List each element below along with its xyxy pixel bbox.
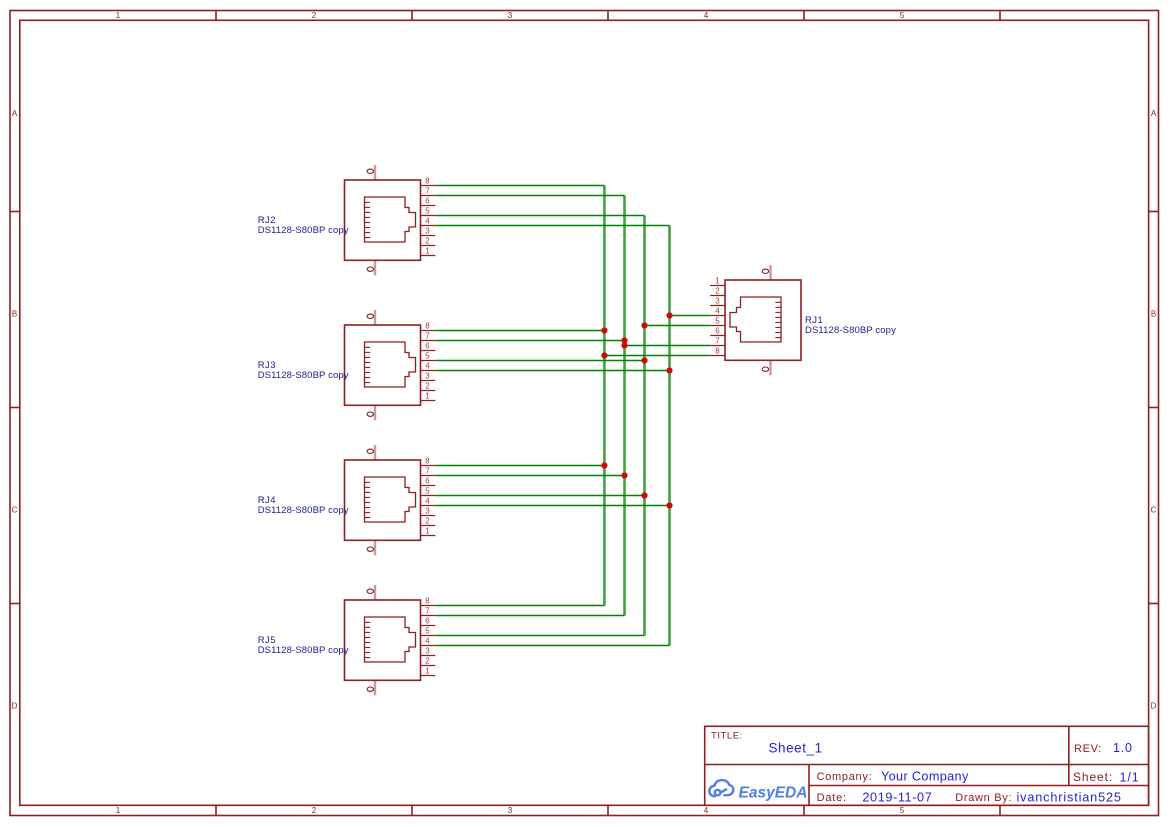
svg-text:8: 8 [425,457,430,466]
svg-text:2: 2 [425,382,430,391]
svg-text:REV:: REV: [1074,743,1102,755]
svg-text:ivanchristian525: ivanchristian525 [1017,791,1122,805]
svg-text:EasyEDA: EasyEDA [739,785,808,802]
svg-text:1: 1 [425,527,430,536]
svg-text:4: 4 [715,307,720,316]
svg-text:C: C [1151,506,1157,515]
svg-text:3: 3 [425,227,430,236]
svg-text:7: 7 [425,332,430,341]
svg-text:A: A [12,109,18,118]
svg-text:7: 7 [425,467,430,476]
svg-text:8: 8 [425,597,430,606]
svg-text:4: 4 [425,497,430,506]
svg-text:1.0: 1.0 [1113,741,1133,755]
svg-text:5: 5 [425,352,430,361]
svg-text:1: 1 [425,667,430,676]
svg-text:B: B [1151,310,1156,319]
svg-text:7: 7 [715,337,720,346]
svg-text:5: 5 [900,806,905,815]
svg-text:C: C [12,506,18,515]
svg-text:1: 1 [425,392,430,401]
svg-text:4: 4 [704,806,709,815]
svg-text:4: 4 [425,637,430,646]
svg-text:Sheet:: Sheet: [1073,770,1113,784]
svg-text:Company:: Company: [817,771,873,783]
svg-text:Sheet_1: Sheet_1 [769,741,823,756]
svg-text:2019-11-07: 2019-11-07 [862,791,932,805]
svg-text:3: 3 [715,297,720,306]
svg-text:2: 2 [425,237,430,246]
svg-text:2: 2 [312,11,317,20]
svg-text:DS1128-S80BP copy: DS1128-S80BP copy [258,225,349,236]
svg-text:DS1128-S80BP copy: DS1128-S80BP copy [258,505,349,516]
svg-text:6: 6 [425,477,430,486]
svg-text:DS1128-S80BP copy: DS1128-S80BP copy [805,325,896,336]
svg-text:8: 8 [425,177,430,186]
svg-text:2: 2 [715,287,720,296]
svg-text:5: 5 [425,207,430,216]
svg-text:4: 4 [704,11,709,20]
svg-text:Date:: Date: [817,792,847,804]
svg-text:7: 7 [425,187,430,196]
svg-text:6: 6 [425,342,430,351]
svg-text:7: 7 [425,607,430,616]
svg-text:3: 3 [425,372,430,381]
svg-text:3: 3 [425,507,430,516]
svg-text:2: 2 [425,517,430,526]
svg-text:DS1128-S80BP copy: DS1128-S80BP copy [258,645,349,656]
svg-text:1/1: 1/1 [1120,771,1140,785]
svg-text:6: 6 [425,197,430,206]
svg-text:1: 1 [715,277,720,286]
svg-text:4: 4 [425,217,430,226]
svg-text:8: 8 [425,322,430,331]
svg-text:5: 5 [900,11,905,20]
svg-text:1: 1 [116,806,121,815]
svg-text:2: 2 [312,806,317,815]
svg-text:3: 3 [508,806,513,815]
svg-text:6: 6 [425,617,430,626]
svg-text:B: B [12,310,17,319]
svg-text:2: 2 [425,657,430,666]
svg-text:Your Company: Your Company [881,770,969,784]
svg-text:1: 1 [425,247,430,256]
svg-text:3: 3 [508,11,513,20]
svg-text:5: 5 [425,487,430,496]
svg-text:D: D [1151,702,1157,711]
svg-text:D: D [12,702,18,711]
svg-text:TITLE:: TITLE: [711,731,743,742]
svg-text:5: 5 [715,317,720,326]
svg-text:3: 3 [425,647,430,656]
svg-text:6: 6 [715,327,720,336]
svg-text:A: A [1151,109,1157,118]
svg-text:Drawn By:: Drawn By: [955,792,1012,804]
svg-text:DS1128-S80BP copy: DS1128-S80BP copy [258,370,349,381]
svg-text:8: 8 [715,347,720,356]
svg-text:4: 4 [425,362,430,371]
svg-text:1: 1 [116,11,121,20]
svg-text:5: 5 [425,627,430,636]
